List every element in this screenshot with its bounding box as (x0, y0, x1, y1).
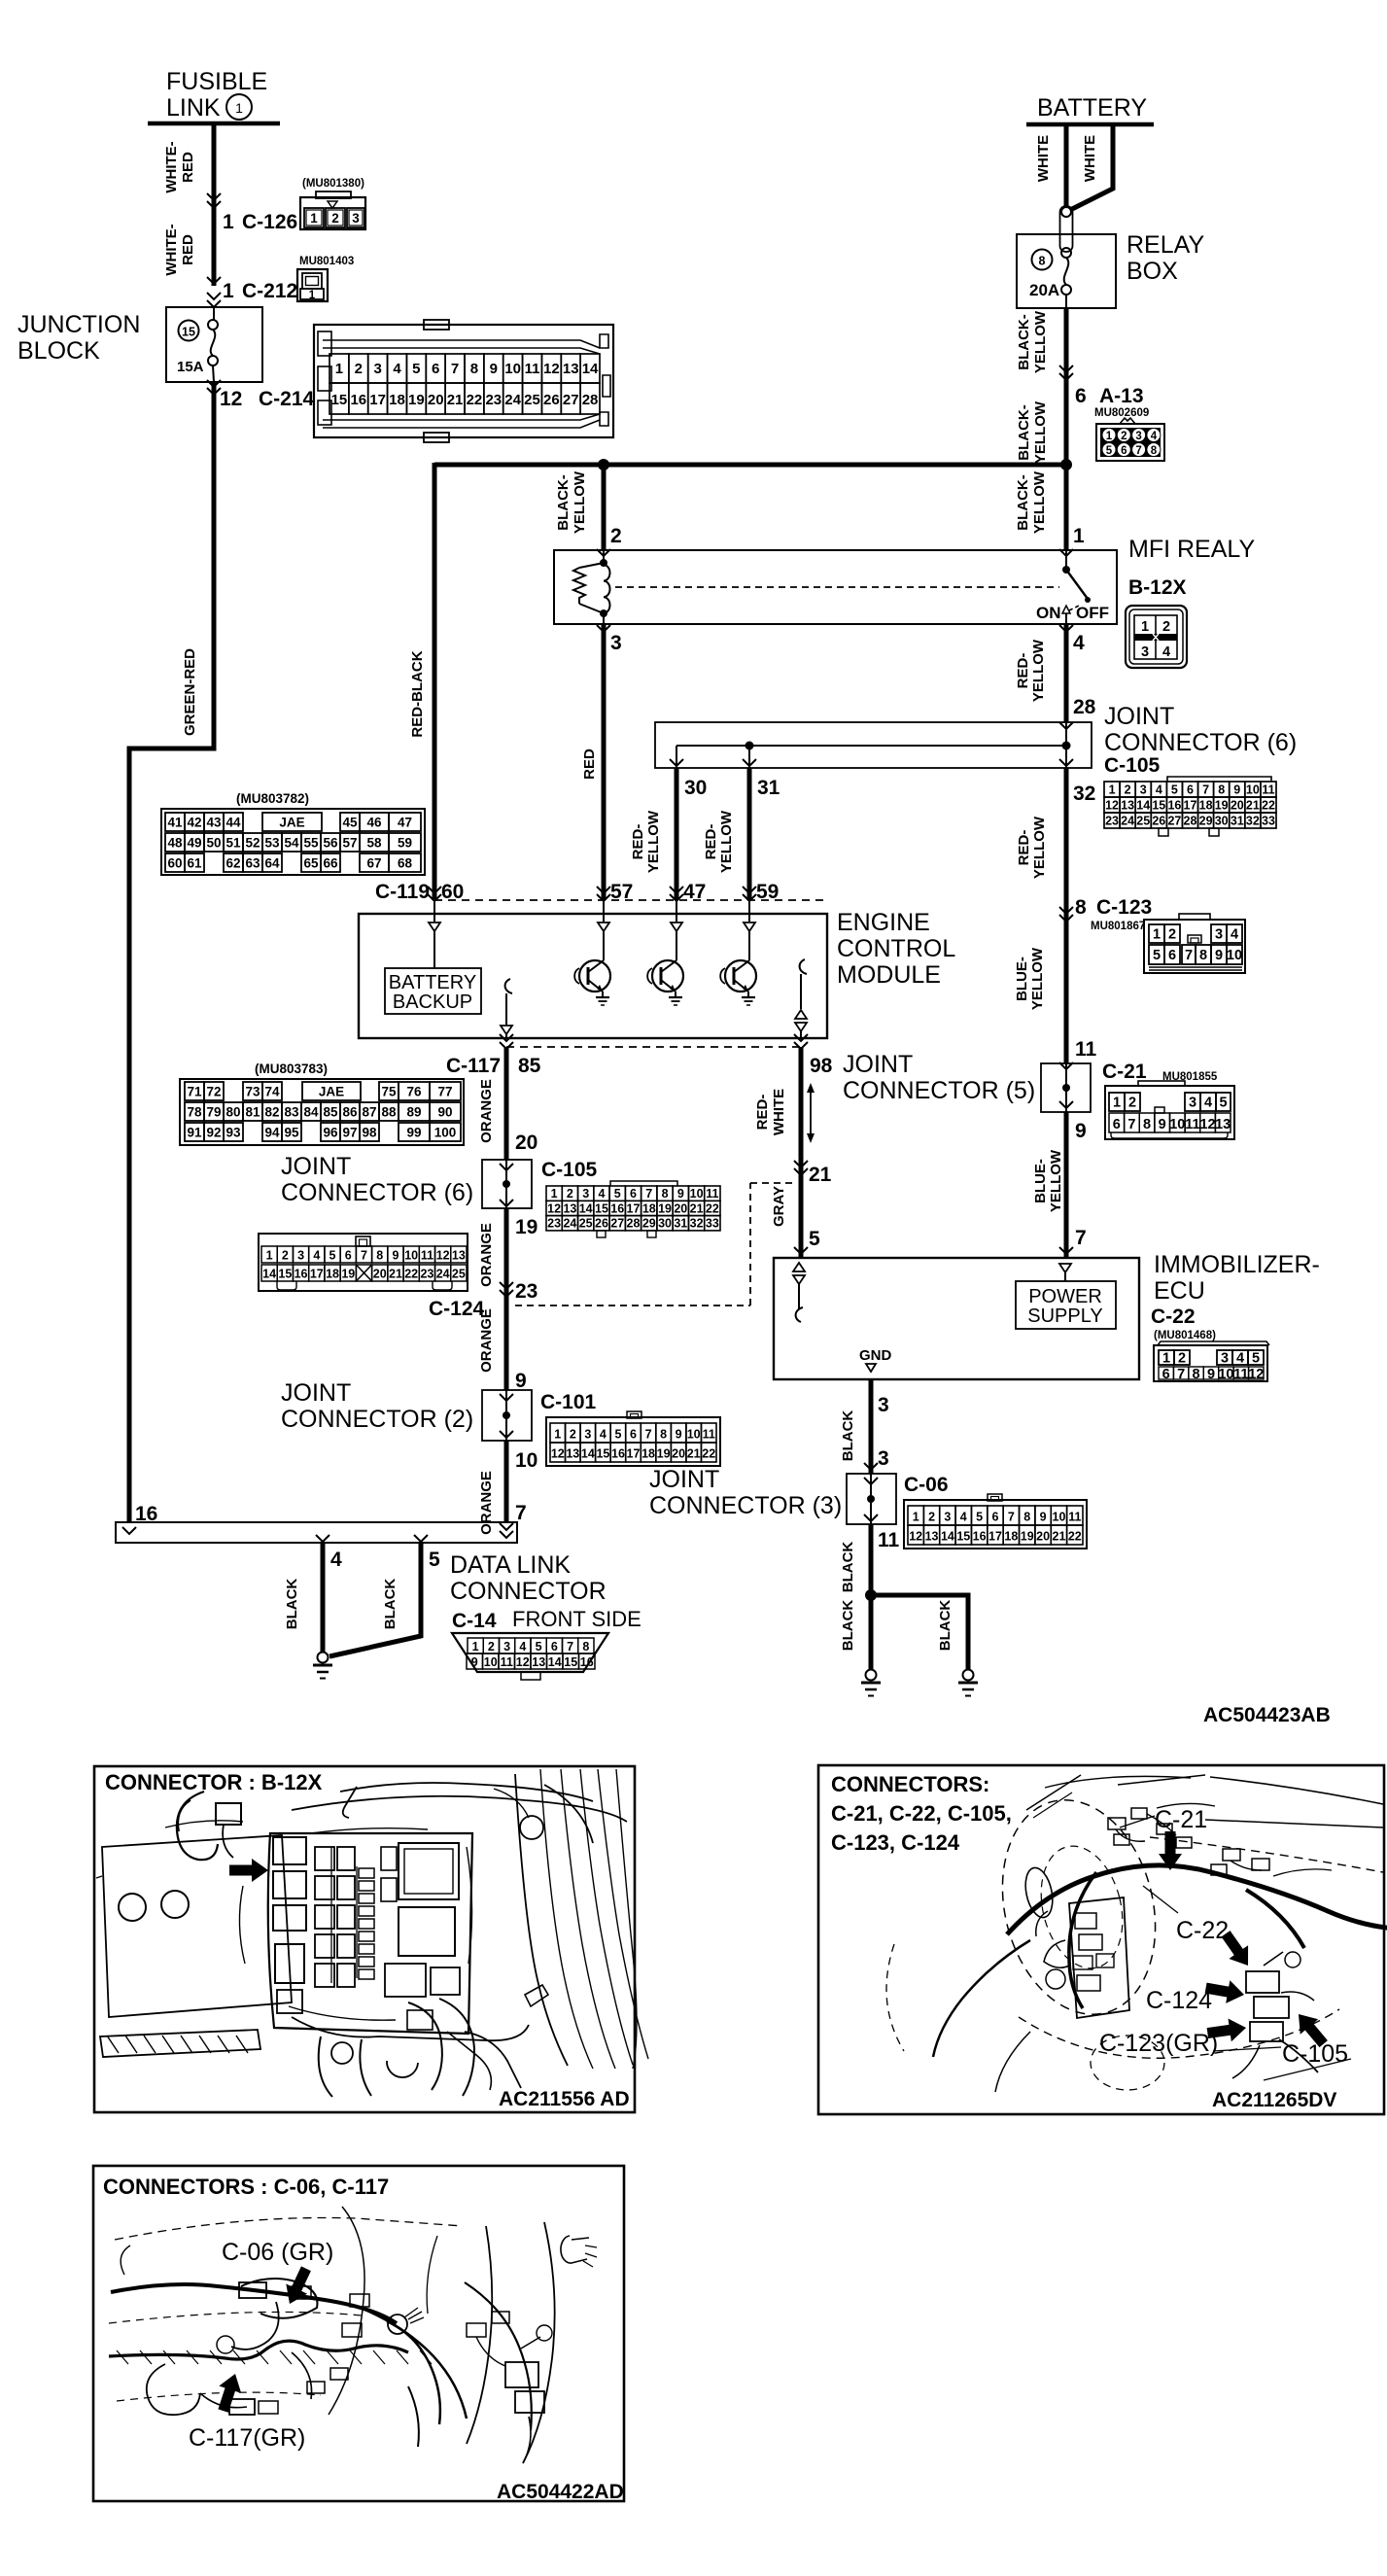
svg-text:15: 15 (564, 1655, 577, 1669)
svg-text:8: 8 (1075, 896, 1087, 919)
svg-text:JOINT: JOINT (1104, 703, 1174, 730)
svg-text:14: 14 (1136, 799, 1150, 813)
svg-text:55: 55 (303, 836, 319, 851)
wire RED-YELLOW MFI relay pin 4 to joint connector pin 28 (1015, 624, 1096, 729)
transistor Q1 (574, 900, 610, 1005)
svg-text:RED: RED (581, 748, 598, 780)
svg-text:30: 30 (1215, 815, 1229, 828)
svg-text:BLACK: BLACK (284, 1579, 300, 1630)
immobilizer power supply (1016, 1264, 1116, 1329)
svg-text:75: 75 (381, 1085, 397, 1099)
svg-text:3: 3 (878, 1447, 889, 1470)
svg-text:4: 4 (1162, 644, 1170, 660)
svg-text:YELLOW: YELLOW (1031, 816, 1048, 879)
svg-text:C-214: C-214 (259, 388, 315, 410)
svg-text:6: 6 (1075, 385, 1087, 407)
svg-text:30: 30 (684, 777, 707, 799)
svg-text:BLACK: BLACK (840, 1600, 856, 1652)
svg-text:JOINT: JOINT (281, 1379, 351, 1407)
svg-text:86: 86 (342, 1105, 358, 1120)
svg-text:1: 1 (309, 290, 316, 301)
wire ORANGE joint connector pin 19 to C-124 pin 23 (478, 1208, 537, 1303)
svg-text:C-119: C-119 (375, 881, 430, 903)
svg-text:18: 18 (326, 1268, 339, 1281)
svg-text:(MU801468): (MU801468) (1154, 1330, 1216, 1341)
svg-text:57: 57 (610, 881, 633, 903)
svg-text:7: 7 (1127, 1117, 1135, 1132)
svg-text:73: 73 (245, 1085, 260, 1099)
svg-text:50: 50 (206, 836, 221, 851)
svg-text:92: 92 (206, 1126, 221, 1140)
svg-text:RED-: RED- (703, 824, 719, 860)
connector C-119 interface dashed line (375, 881, 823, 903)
svg-text:27: 27 (1167, 815, 1181, 828)
svg-text:22: 22 (467, 392, 483, 408)
svg-text:19: 19 (657, 1447, 671, 1461)
svg-text:8: 8 (1193, 1367, 1200, 1382)
svg-text:98: 98 (810, 1055, 833, 1077)
ground right 1 (861, 1670, 881, 1696)
svg-text:3: 3 (582, 1187, 589, 1201)
svg-text:11: 11 (421, 1249, 433, 1263)
svg-text:4: 4 (393, 361, 401, 377)
svg-text:ECU: ECU (1154, 1277, 1205, 1305)
wire RED MFI relay pin 3 to ECM pin 57 (581, 624, 622, 900)
svg-text:(MU801380): (MU801380) (302, 178, 364, 190)
svg-text:5: 5 (1252, 1351, 1260, 1367)
svg-text:28: 28 (1184, 815, 1197, 828)
MFI relay B-12X box (554, 536, 1255, 624)
svg-text:84: 84 (303, 1105, 319, 1120)
svg-text:8: 8 (660, 1428, 667, 1442)
svg-text:29: 29 (1199, 815, 1213, 828)
svg-text:C-22: C-22 (1176, 1917, 1229, 1944)
svg-text:12: 12 (543, 361, 560, 377)
svg-text:RED-: RED- (1015, 653, 1031, 689)
wire GREEN-RED junction block to data link connector (129, 382, 214, 1522)
svg-text:JAE: JAE (279, 816, 304, 830)
svg-text:4: 4 (1151, 431, 1158, 442)
svg-text:8: 8 (1023, 1511, 1030, 1524)
svg-text:29: 29 (642, 1217, 656, 1231)
svg-text:SUPPLY: SUPPLY (1027, 1305, 1102, 1327)
svg-text:4: 4 (313, 1249, 320, 1263)
svg-text:19: 19 (658, 1201, 672, 1215)
svg-text:6: 6 (1113, 1117, 1121, 1132)
svg-text:11: 11 (1233, 1367, 1248, 1382)
svg-text:BLACK-: BLACK- (1015, 474, 1031, 531)
svg-text:11: 11 (1262, 783, 1274, 797)
svg-text:10: 10 (1053, 1511, 1066, 1524)
svg-text:C-123(GR): C-123(GR) (1099, 2030, 1218, 2057)
svg-text:72: 72 (206, 1085, 221, 1099)
svg-text:28: 28 (1073, 696, 1096, 718)
svg-text:ORANGE: ORANGE (478, 1471, 495, 1535)
svg-text:63: 63 (245, 856, 260, 871)
svg-text:15: 15 (278, 1268, 292, 1281)
svg-text:14: 14 (548, 1655, 562, 1669)
svg-text:90: 90 (437, 1105, 452, 1120)
svg-text:C-212: C-212 (242, 280, 297, 302)
svg-text:MU801403: MU801403 (299, 256, 354, 267)
svg-text:AC504423AB: AC504423AB (1203, 1704, 1331, 1726)
svg-text:22: 22 (1262, 799, 1275, 813)
svg-text:17: 17 (627, 1201, 641, 1215)
svg-text:14: 14 (581, 1447, 595, 1461)
svg-text:AC211265DV: AC211265DV (1212, 2089, 1336, 2111)
svg-text:7: 7 (1202, 783, 1209, 797)
svg-text:4: 4 (600, 1428, 607, 1442)
svg-text:POWER: POWER (1028, 1286, 1102, 1307)
wire ORANGE ECM pin 85 to joint connector pin 20 (478, 1047, 537, 1160)
svg-text:33: 33 (706, 1217, 719, 1231)
svg-text:1: 1 (913, 1511, 919, 1524)
svg-text:B-12X: B-12X (1128, 576, 1187, 599)
svg-text:C-126: C-126 (242, 211, 297, 233)
photo panel CONNECTOR B-12X frame (94, 1766, 635, 2112)
svg-text:18: 18 (641, 1447, 655, 1461)
svg-text:47: 47 (683, 881, 706, 903)
svg-text:BACKUP: BACKUP (393, 992, 472, 1013)
dashed link C-124 to pin 21 (515, 1183, 795, 1305)
svg-text:9: 9 (676, 1428, 682, 1442)
wire BLACK-YELLOW relay box to A-13 (1016, 308, 1073, 465)
wire RED-YELLOW joint connector pin 32 to C-123 (1016, 768, 1095, 922)
svg-text:16: 16 (973, 1530, 987, 1544)
svg-text:13: 13 (452, 1249, 466, 1263)
svg-text:C-14: C-14 (452, 1610, 497, 1632)
svg-text:5: 5 (429, 1549, 440, 1571)
svg-text:RED-: RED- (1016, 830, 1032, 866)
svg-text:97: 97 (342, 1126, 357, 1140)
svg-text:59: 59 (756, 881, 779, 903)
svg-text:85: 85 (323, 1105, 338, 1120)
svg-text:53: 53 (264, 836, 280, 851)
svg-text:12: 12 (516, 1655, 530, 1669)
relay box with fusible link 8 (20A) (1017, 206, 1204, 308)
svg-text:FRONT SIDE: FRONT SIDE (512, 1607, 641, 1631)
svg-text:BOX: BOX (1127, 258, 1178, 285)
svg-text:3: 3 (584, 1428, 591, 1442)
svg-text:1: 1 (1162, 1351, 1170, 1367)
svg-text:25: 25 (524, 392, 540, 408)
svg-text:YELLOW: YELLOW (1030, 639, 1047, 702)
svg-text:3: 3 (1135, 431, 1141, 442)
junction block fuse 15 (15A) (166, 293, 262, 395)
svg-text:10: 10 (504, 361, 521, 377)
svg-text:20: 20 (1036, 1530, 1050, 1544)
svg-text:20: 20 (373, 1268, 387, 1281)
svg-text:15A: 15A (177, 359, 204, 375)
svg-text:5: 5 (614, 1187, 621, 1201)
svg-text:BATTERY: BATTERY (1037, 94, 1147, 122)
svg-text:6: 6 (345, 1249, 352, 1263)
svg-text:5: 5 (976, 1511, 983, 1524)
svg-text:JOINT: JOINT (281, 1153, 351, 1180)
figure code AC504423AB (1203, 1704, 1331, 1726)
svg-text:7: 7 (1177, 1367, 1185, 1382)
ECM battery backup circuit (385, 900, 481, 1014)
svg-text:21: 21 (389, 1268, 402, 1281)
svg-text:2: 2 (488, 1640, 495, 1654)
svg-text:C-123, C-124: C-123, C-124 (831, 1830, 960, 1855)
battery label (1037, 94, 1147, 122)
photo panel dashboard art (886, 1775, 1387, 2111)
svg-text:2: 2 (331, 211, 339, 226)
svg-text:MODULE: MODULE (837, 961, 941, 989)
svg-text:(MU803782): (MU803782) (236, 791, 309, 806)
svg-text:11: 11 (706, 1187, 718, 1201)
svg-text:27: 27 (563, 392, 579, 408)
svg-text:49: 49 (187, 836, 201, 851)
svg-text:52: 52 (245, 836, 260, 851)
svg-text:23: 23 (420, 1268, 433, 1281)
svg-text:RELAY: RELAY (1127, 231, 1204, 259)
svg-text:YELLOW: YELLOW (1031, 470, 1048, 534)
engine control module box (359, 909, 955, 1038)
joint connector (3) C-06 box (649, 1466, 949, 1524)
svg-text:WHITE-: WHITE- (163, 224, 180, 275)
data link connector bus (116, 1503, 641, 1632)
svg-text:RED: RED (180, 152, 196, 183)
wire ORANGE C-124 to joint connector pin 9 (478, 1295, 527, 1392)
svg-text:(MU803783): (MU803783) (255, 1062, 328, 1076)
wire BLACK-YELLOW A-13 down to junction (1016, 400, 1049, 464)
svg-text:7: 7 (1075, 1227, 1087, 1249)
svg-text:BLACK-: BLACK- (555, 474, 572, 531)
svg-text:9: 9 (392, 1249, 399, 1263)
svg-text:16: 16 (1167, 799, 1181, 813)
svg-text:4: 4 (1156, 783, 1162, 797)
svg-text:YELLOW: YELLOW (718, 810, 735, 873)
svg-text:18: 18 (1199, 799, 1213, 813)
svg-text:5: 5 (1219, 1096, 1227, 1111)
svg-text:CONNECTOR (6): CONNECTOR (6) (281, 1179, 473, 1206)
immobilizer internal pin 5 (793, 1263, 805, 1322)
wire RED-YELLOW joint connector pin 31 to ECM pin 59 (703, 768, 780, 900)
svg-text:64: 64 (264, 856, 280, 871)
MFI relay control dashed line (615, 586, 1059, 588)
svg-text:17: 17 (1184, 799, 1197, 813)
svg-text:22: 22 (404, 1268, 418, 1281)
svg-text:1: 1 (235, 100, 243, 116)
svg-text:2: 2 (1178, 1351, 1186, 1367)
ECM internal pin 85 output (501, 979, 512, 1038)
svg-text:C-117(GR): C-117(GR) (189, 2424, 305, 2452)
svg-text:22: 22 (1068, 1530, 1082, 1544)
svg-text:22: 22 (706, 1201, 719, 1215)
svg-text:RED-: RED- (754, 1095, 771, 1131)
svg-text:7: 7 (361, 1249, 367, 1263)
svg-text:23: 23 (1105, 815, 1119, 828)
svg-text:C-123: C-123 (1096, 896, 1152, 919)
svg-text:1: 1 (223, 280, 234, 302)
svg-text:11: 11 (1068, 1511, 1081, 1524)
svg-text:1: 1 (266, 1249, 273, 1263)
svg-text:43: 43 (206, 816, 222, 830)
svg-text:1: 1 (1106, 431, 1113, 442)
svg-text:76: 76 (406, 1085, 422, 1099)
svg-text:62: 62 (225, 856, 240, 871)
svg-text:GREEN-RED: GREEN-RED (182, 648, 198, 736)
svg-text:A-13: A-13 (1099, 385, 1144, 407)
svg-text:WHITE-: WHITE- (163, 141, 180, 192)
svg-text:BLACK: BLACK (840, 1542, 856, 1593)
svg-text:15: 15 (595, 1201, 608, 1215)
fusible link bus bar (148, 122, 280, 126)
wire RED-BLACK to ECM pin 60 (409, 463, 434, 900)
svg-text:16: 16 (350, 392, 366, 408)
connector C-105 upper pin diagram (1104, 777, 1276, 836)
svg-text:3: 3 (1140, 783, 1147, 797)
svg-text:2: 2 (928, 1511, 935, 1524)
svg-text:25: 25 (452, 1268, 466, 1281)
svg-text:CONNECTOR (6): CONNECTOR (6) (1104, 729, 1297, 756)
svg-text:12: 12 (547, 1201, 561, 1215)
svg-text:8: 8 (582, 1640, 589, 1654)
svg-text:CONNECTOR (3): CONNECTOR (3) (649, 1492, 842, 1519)
svg-text:20: 20 (428, 392, 444, 408)
svg-text:CONNECTORS : C-06, C-117: CONNECTORS : C-06, C-117 (103, 2175, 389, 2199)
svg-text:24: 24 (563, 1217, 576, 1231)
svg-text:6: 6 (1187, 783, 1194, 797)
svg-text:C-105: C-105 (1282, 2040, 1348, 2068)
svg-text:10: 10 (1169, 1117, 1185, 1132)
transistor Q2 (647, 900, 683, 1005)
svg-text:79: 79 (206, 1105, 221, 1120)
svg-text:18: 18 (1004, 1530, 1018, 1544)
svg-text:OFF: OFF (1076, 604, 1109, 622)
svg-text:20A: 20A (1029, 281, 1059, 299)
svg-text:JOINT: JOINT (843, 1051, 913, 1078)
svg-text:3: 3 (352, 211, 360, 226)
svg-text:9: 9 (1233, 783, 1240, 797)
svg-text:JUNCTION: JUNCTION (17, 311, 140, 338)
svg-text:1: 1 (551, 1187, 558, 1201)
svg-text:7: 7 (567, 1640, 573, 1654)
svg-text:2: 2 (1168, 927, 1176, 943)
connector C-126 in-line (223, 178, 365, 233)
svg-text:24: 24 (436, 1268, 450, 1281)
svg-text:32: 32 (690, 1217, 704, 1231)
svg-text:8: 8 (1199, 948, 1207, 963)
svg-text:WHITE: WHITE (771, 1089, 787, 1135)
wire BLUE-YELLOW C-21 pin 9 to immobilizer pin 7 (1032, 1112, 1087, 1258)
svg-text:CONNECTOR (2): CONNECTOR (2) (281, 1406, 473, 1433)
svg-text:BLACK: BLACK (937, 1600, 954, 1652)
svg-text:21: 21 (809, 1164, 832, 1186)
MFI relay switch contact (1036, 550, 1109, 624)
svg-text:26: 26 (1152, 815, 1165, 828)
svg-text:14: 14 (579, 1201, 593, 1215)
svg-text:2: 2 (1125, 783, 1131, 797)
svg-text:11: 11 (1185, 1117, 1199, 1132)
svg-text:5: 5 (329, 1249, 336, 1263)
svg-text:15: 15 (1152, 799, 1165, 813)
svg-text:C-124: C-124 (429, 1298, 485, 1320)
svg-text:RED-: RED- (630, 824, 646, 860)
svg-text:10: 10 (687, 1428, 701, 1442)
svg-text:12: 12 (1105, 799, 1119, 813)
svg-text:CONNECTOR : B-12X: CONNECTOR : B-12X (105, 1770, 323, 1794)
svg-text:C-21, C-22, C-105,: C-21, C-22, C-105, (831, 1801, 1012, 1826)
svg-text:YELLOW: YELLOW (645, 810, 662, 873)
svg-text:56: 56 (323, 836, 338, 851)
svg-text:YELLOW: YELLOW (1032, 400, 1049, 464)
svg-text:4: 4 (519, 1640, 526, 1654)
svg-text:3: 3 (1189, 1096, 1196, 1111)
connector C-212 in-line (223, 256, 354, 302)
svg-text:23: 23 (485, 392, 502, 408)
svg-text:6: 6 (1168, 948, 1176, 963)
svg-text:14: 14 (582, 361, 599, 377)
svg-text:98: 98 (362, 1126, 377, 1140)
svg-text:3: 3 (1141, 644, 1149, 660)
svg-text:41: 41 (167, 816, 183, 830)
junction block label (17, 311, 140, 365)
svg-text:20: 20 (674, 1201, 687, 1215)
svg-text:31: 31 (1231, 815, 1244, 828)
svg-text:9: 9 (677, 1187, 684, 1201)
svg-text:13: 13 (563, 1201, 576, 1215)
svg-text:CONTROL: CONTROL (837, 935, 955, 962)
svg-text:7: 7 (645, 1428, 652, 1442)
svg-text:82: 82 (264, 1105, 279, 1120)
svg-text:13: 13 (563, 361, 579, 377)
svg-text:C-21: C-21 (1102, 1061, 1147, 1083)
svg-text:DATA LINK: DATA LINK (450, 1551, 571, 1579)
svg-text:58: 58 (366, 836, 382, 851)
svg-text:32: 32 (1246, 815, 1260, 828)
svg-text:1: 1 (1113, 1096, 1121, 1111)
connector C-105 lower pin diagram (546, 1181, 720, 1237)
connector C-117 interface dashed line (446, 1034, 833, 1077)
svg-text:C-06 (GR): C-06 (GR) (222, 2239, 333, 2266)
svg-text:BLACK: BLACK (840, 1410, 856, 1462)
connector C-22 pin diagram (1154, 1341, 1269, 1382)
wire WHITE-RED C-126 to C-212 (163, 210, 221, 286)
connector A-13 in-line (1075, 385, 1164, 461)
svg-text:RED: RED (180, 234, 196, 265)
svg-text:6: 6 (992, 1511, 999, 1524)
svg-text:6: 6 (630, 1187, 637, 1201)
svg-text:C-06: C-06 (904, 1474, 949, 1496)
connector C-117 pin map (MU803783) (180, 1062, 464, 1145)
svg-text:1: 1 (472, 1640, 479, 1654)
wire BLACK data link pin 5 to ground (329, 1543, 440, 1656)
svg-text:10: 10 (1218, 1367, 1233, 1382)
svg-text:14: 14 (262, 1268, 276, 1281)
svg-text:85: 85 (518, 1055, 541, 1077)
svg-text:28: 28 (582, 392, 599, 408)
svg-text:12: 12 (1199, 1117, 1215, 1132)
svg-text:5: 5 (536, 1640, 542, 1654)
svg-text:21: 21 (1053, 1530, 1066, 1544)
svg-text:ON: ON (1036, 604, 1061, 622)
svg-text:9: 9 (515, 1370, 527, 1392)
svg-text:24: 24 (504, 392, 521, 408)
joint connector (6) C-105 upper box (655, 703, 1297, 777)
svg-text:100: 100 (434, 1126, 457, 1140)
svg-text:1: 1 (1073, 525, 1085, 547)
svg-text:99: 99 (406, 1126, 421, 1140)
svg-text:67: 67 (366, 856, 381, 871)
connector C-06 pin diagram (904, 1494, 1087, 1549)
svg-text:9: 9 (471, 1655, 478, 1669)
fusible link (1) label (166, 68, 267, 122)
svg-text:6: 6 (1162, 1367, 1170, 1382)
photo panel CONNECTORS C-21 C-22 C-105 C-123 C-124 frame (818, 1765, 1384, 2114)
